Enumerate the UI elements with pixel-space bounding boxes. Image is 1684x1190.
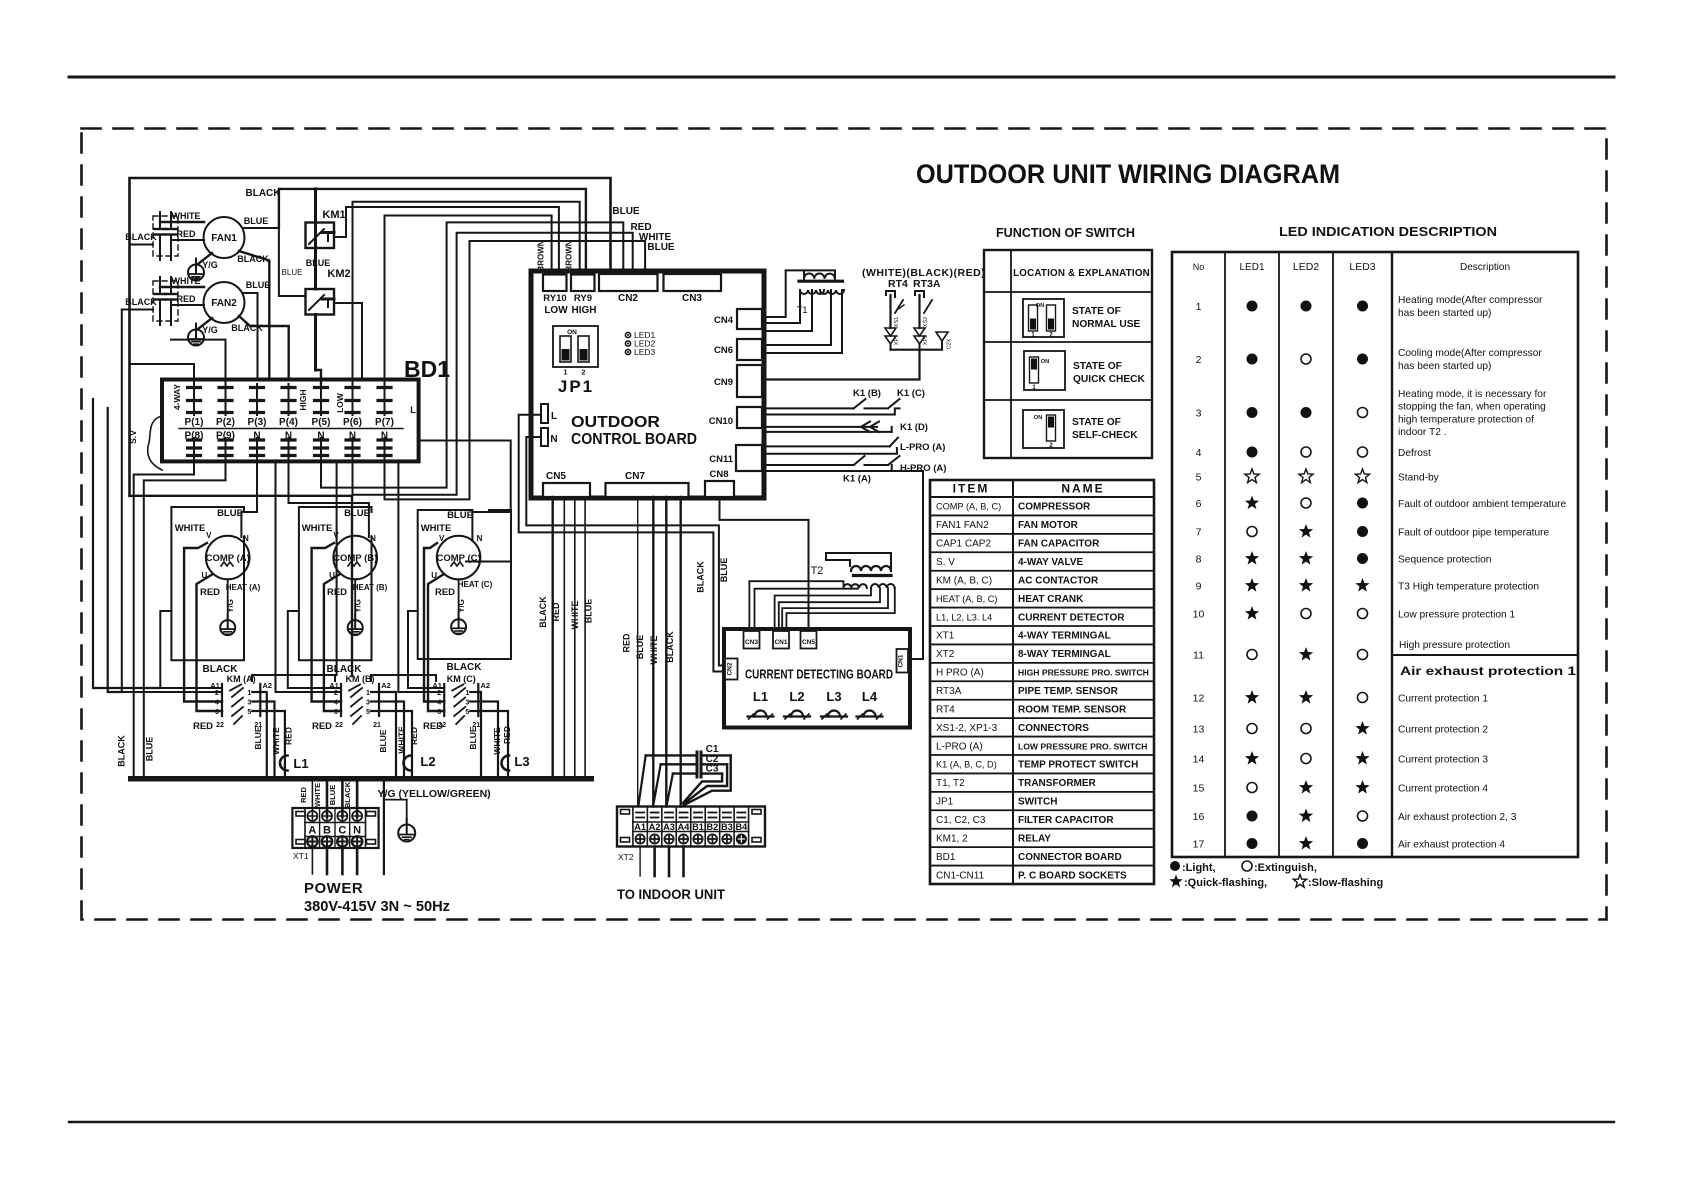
current transformers L1-L4 — [748, 689, 883, 719]
svg-text:RED: RED — [312, 721, 332, 732]
svg-text:BLUE: BLUE — [719, 558, 729, 583]
svg-text:3: 3 — [1196, 408, 1202, 420]
svg-text:RT3A: RT3A — [913, 278, 941, 290]
svg-text:6: 6 — [215, 709, 219, 716]
svg-text:FAN1: FAN1 — [211, 233, 237, 244]
svg-text:TEMP PROTECT SWITCH: TEMP PROTECT SWITCH — [1018, 760, 1138, 771]
svg-text:P(1): P(1) — [185, 417, 204, 428]
svg-text:4: 4 — [215, 700, 219, 707]
svg-text:BLUE: BLUE — [584, 599, 594, 624]
wire BD1 N to CN2 RED — [321, 222, 652, 488]
dip switch JP1 — [553, 326, 598, 396]
label BLACK above KM B — [327, 664, 363, 675]
svg-text:17: 17 — [1193, 839, 1205, 851]
svg-text:Low pressure protection 1: Low pressure protection 1 — [1398, 610, 1516, 621]
svg-text:L1: L1 — [753, 689, 768, 704]
svg-text:AC CONTACTOR: AC CONTACTOR — [1018, 575, 1099, 586]
svg-text:high temperature protection of: high temperature protection of — [1398, 414, 1534, 425]
svg-text:BLACK: BLACK — [665, 631, 675, 663]
svg-text:LOW: LOW — [544, 305, 568, 316]
svg-text:BLUE: BLUE — [282, 268, 303, 277]
svg-text:7: 7 — [1196, 527, 1202, 539]
svg-text:ON: ON — [567, 329, 577, 336]
terminal block XT1 — [292, 808, 378, 861]
svg-text:indoor T2 .: indoor T2 . — [1398, 427, 1447, 438]
svg-text:High pressure protection: High pressure protection — [1399, 640, 1510, 651]
svg-text:5: 5 — [465, 709, 469, 716]
svg-text:P(2): P(2) — [216, 417, 235, 428]
wires KM C down to bar and L3 — [468, 692, 512, 777]
svg-text:Air exhaust protection 1: Air exhaust protection 1 — [1400, 666, 1577, 678]
connector CN5 cdb — [801, 631, 817, 649]
svg-text:FUNCTION OF SWITCH: FUNCTION OF SWITCH — [996, 225, 1135, 240]
svg-text:FAN1 FAN2: FAN1 FAN2 — [936, 520, 989, 531]
svg-text:BLUE: BLUE — [253, 726, 263, 749]
wire BD1 P1 from outer edge — [130, 364, 195, 384]
svg-text:A4: A4 — [678, 822, 691, 832]
svg-text:HEAT (A, B, C): HEAT (A, B, C) — [936, 594, 997, 604]
label BROWN wires — [537, 240, 574, 271]
svg-text:Y/G: Y/G — [226, 599, 235, 613]
svg-text:5: 5 — [366, 709, 370, 716]
wires T1 primary — [764, 270, 835, 317]
connector CN7 — [606, 471, 689, 497]
svg-text:Current protection 2: Current protection 2 — [1398, 725, 1488, 736]
wire black A third — [160, 611, 222, 688]
svg-text:KM1: KM1 — [322, 209, 345, 221]
svg-text:HIGH: HIGH — [572, 305, 597, 316]
connector C2X — [936, 332, 953, 349]
svg-text:RY10: RY10 — [543, 293, 566, 304]
svg-text:Fault of outdoor pipe temperat: Fault of outdoor pipe temperature — [1398, 528, 1550, 539]
filter capacitor C1 — [639, 744, 731, 805]
svg-text:Stand-by: Stand-by — [1398, 473, 1440, 484]
svg-text:RELAY: RELAY — [1018, 833, 1051, 844]
svg-text:K1 (C): K1 (C) — [897, 388, 925, 399]
wire BLACK to fan1 — [125, 232, 157, 245]
svg-text:1: 1 — [465, 690, 469, 697]
svg-text:WHITE: WHITE — [302, 523, 333, 534]
svg-text:L1: L1 — [293, 756, 308, 771]
svg-text:JP1: JP1 — [936, 797, 954, 808]
wire BLACK fan2 to BD1 P4 — [231, 316, 288, 380]
wire BD1 aux drop 3 — [398, 461, 444, 692]
svg-text:10: 10 — [1193, 609, 1205, 621]
svg-text:T1, T2: T1, T2 — [936, 778, 965, 789]
current loop L1 — [280, 756, 309, 772]
svg-text:N: N — [253, 431, 260, 442]
svg-text:WHITE: WHITE — [172, 276, 201, 286]
svg-text:BLACK: BLACK — [117, 735, 127, 767]
transformer T1 — [796, 274, 844, 316]
capacitor CAP2 (fan2) — [153, 277, 178, 325]
svg-text:ROOM TEMP. SENSOR: ROOM TEMP. SENSOR — [1018, 704, 1127, 715]
svg-text:8-WAY TERMINGAL: 8-WAY TERMINGAL — [1018, 649, 1111, 660]
svg-text:LED INDICATION DESCRIPTION: LED INDICATION DESCRIPTION — [1279, 224, 1497, 239]
switch icon self check — [1023, 410, 1138, 449]
svg-text:BLACK: BLACK — [237, 254, 269, 264]
svg-text:NAME: NAME — [1061, 482, 1104, 496]
svg-text:CN4: CN4 — [714, 315, 734, 326]
svg-text:L4: L4 — [862, 689, 878, 704]
svg-text:C2X: C2X — [947, 338, 953, 349]
svg-text:JP1: JP1 — [558, 377, 594, 396]
wire C third — [408, 611, 444, 688]
svg-text:CN5: CN5 — [546, 471, 566, 482]
svg-text:Y/G: Y/G — [354, 599, 363, 613]
svg-text:K1 (A, B, C, D): K1 (A, B, C, D) — [936, 760, 997, 770]
svg-text:KM1, 2: KM1, 2 — [936, 833, 968, 844]
svg-text:LOW PRESSURE PRO. SWITCH: LOW PRESSURE PRO. SWITCH — [1018, 741, 1147, 751]
dashed drawing border — [82, 129, 1607, 920]
connector RY9 — [571, 275, 597, 317]
connector CN1 cdb right — [897, 649, 909, 673]
svg-text:Fault of outdoor ambient tempe: Fault of outdoor ambient temperature — [1398, 499, 1567, 510]
svg-text:6: 6 — [1196, 498, 1202, 510]
svg-text:HEAT (C): HEAT (C) — [458, 580, 493, 589]
sensor RT4 — [885, 291, 904, 345]
wires XT1 down — [312, 848, 357, 874]
wire L from BD1 to COMP C — [419, 441, 511, 541]
svg-text:BLUE: BLUE — [635, 635, 645, 660]
svg-text:KM2: KM2 — [327, 268, 350, 280]
wires CN7 bundle down — [622, 497, 681, 807]
svg-text:Description: Description — [1460, 262, 1510, 273]
svg-text:Y/G: Y/G — [457, 599, 466, 613]
svg-text:RT4: RT4 — [888, 278, 908, 290]
wire left trunk extension — [122, 310, 222, 693]
svg-text:CONNECTOR BOARD: CONNECTOR BOARD — [1018, 852, 1122, 863]
wires KM B down to bar and L2 — [378, 692, 419, 777]
svg-text:CONTROL BOARD: CONTROL BOARD — [571, 431, 697, 448]
svg-text:22: 22 — [335, 722, 343, 729]
svg-text:BLUE: BLUE — [217, 508, 243, 519]
svg-text:A1: A1 — [432, 681, 442, 690]
svg-text:T3 High temperature protection: T3 High temperature protection — [1398, 582, 1539, 593]
ground comp C — [451, 579, 466, 634]
svg-text:WHITE: WHITE — [492, 727, 502, 755]
wire BD1 aux drop 1 — [276, 461, 342, 692]
title — [916, 159, 1340, 189]
svg-text:XS1-2, XP1-3: XS1-2, XP1-3 — [936, 723, 998, 734]
svg-text:RED: RED — [193, 721, 213, 732]
switch L-PRO(A) — [764, 438, 945, 454]
svg-text:HIGH: HIGH — [298, 389, 308, 410]
svg-text:V: V — [206, 531, 212, 540]
svg-text:CN5: CN5 — [802, 639, 815, 646]
wires XT2 down — [640, 847, 683, 877]
svg-text::Extinguish,: :Extinguish, — [1254, 862, 1317, 874]
svg-text:HEAT CRANK: HEAT CRANK — [1018, 594, 1084, 605]
svg-text:N: N — [349, 431, 356, 442]
svg-text:5: 5 — [247, 709, 251, 716]
svg-text:BD1: BD1 — [404, 356, 450, 382]
svg-text:KM (C): KM (C) — [447, 674, 476, 684]
connector CN3 — [664, 274, 722, 304]
svg-text:BLUE: BLUE — [344, 508, 370, 519]
svg-text:P(7): P(7) — [375, 417, 394, 428]
svg-text:8: 8 — [1196, 554, 1202, 566]
ground comp B — [348, 579, 363, 635]
svg-text:Air exhaust protection 2, 3: Air exhaust protection 2, 3 — [1398, 812, 1517, 823]
compressor COMP(C) — [421, 510, 511, 598]
svg-text:HEAT (B): HEAT (B) — [353, 583, 388, 592]
svg-text:BLACK: BLACK — [538, 596, 548, 628]
wire red A — [197, 574, 223, 711]
wire white B — [312, 543, 341, 702]
svg-text:N: N — [285, 431, 292, 442]
svg-text:L-PRO (A): L-PRO (A) — [900, 442, 945, 453]
compressor COMP(B) — [302, 508, 388, 598]
switch icon quick check — [1024, 351, 1146, 391]
svg-text:A1: A1 — [329, 681, 339, 690]
wire BLACK fan1 down to BD1 — [237, 251, 269, 380]
svg-text:L: L — [410, 405, 416, 415]
svg-text:BLUE: BLUE — [468, 726, 478, 749]
svg-text:L1, L2, L3. L4: L1, L2, L3. L4 — [936, 612, 992, 622]
svg-text:C3: C3 — [706, 764, 719, 775]
svg-text:P(8): P(8) — [185, 431, 204, 442]
connector CN2 — [599, 274, 658, 304]
svg-text:4-WAY VALVE: 4-WAY VALVE — [1018, 557, 1084, 568]
svg-text::Quick-flashing,: :Quick-flashing, — [1184, 877, 1267, 889]
svg-text:OUTDOOR UNIT WIRING DIAGRAM: OUTDOOR UNIT WIRING DIAGRAM — [916, 159, 1340, 189]
svg-text:CURRENT DETECTING BOARD: CURRENT DETECTING BOARD — [745, 668, 893, 682]
connector CN3 cdb — [744, 631, 760, 649]
svg-text:22: 22 — [216, 722, 224, 729]
svg-text:BLUE: BLUE — [647, 242, 675, 253]
svg-text:A1: A1 — [634, 822, 646, 832]
connector N — [541, 428, 558, 446]
svg-text:BLACK: BLACK — [203, 664, 239, 675]
switch icon normal use — [1023, 299, 1141, 339]
svg-text:N: N — [477, 534, 483, 543]
sensors RT4 RT3A labels — [862, 267, 985, 290]
svg-text:L-PRO (A): L-PRO (A) — [936, 741, 983, 752]
svg-text:HIGH PRESSURE PRO. SWITCH: HIGH PRESSURE PRO. SWITCH — [1018, 668, 1149, 678]
svg-text:XP1: XP1 — [894, 335, 900, 345]
svg-text:L2: L2 — [420, 754, 435, 769]
svg-text:S.V: S.V — [128, 430, 138, 444]
svg-text:P(4): P(4) — [279, 417, 298, 428]
svg-text:WHITE: WHITE — [649, 636, 659, 665]
svg-text:380V-415V 3N ~ 50Hz: 380V-415V 3N ~ 50Hz — [304, 898, 450, 915]
svg-text:N: N — [550, 434, 557, 445]
compressor box A — [171, 507, 244, 660]
wire BLACK KM1 stem to RY9 — [246, 188, 586, 274]
switch K1(D) — [764, 422, 928, 434]
svg-text:WHITE: WHITE — [421, 523, 452, 534]
svg-text:BLACK: BLACK — [125, 232, 157, 242]
svg-text:XT2: XT2 — [936, 649, 955, 660]
wire N to current board CN2 — [526, 437, 725, 666]
wire white C — [424, 543, 444, 702]
svg-text:BLUE: BLUE — [378, 729, 388, 752]
label BLACK above KM A — [203, 664, 239, 675]
svg-text:BLUE: BLUE — [306, 258, 331, 268]
svg-text:PIPE TEMP. SENSOR: PIPE TEMP. SENSOR — [1018, 686, 1119, 697]
svg-text:RED: RED — [502, 726, 512, 744]
wire white A — [184, 543, 222, 702]
svg-text:Defrost: Defrost — [1398, 448, 1431, 459]
svg-text:B: B — [323, 825, 331, 837]
label BLUE trunk — [145, 737, 155, 762]
svg-text:B3: B3 — [721, 822, 733, 832]
svg-text:A2: A2 — [381, 681, 391, 690]
svg-text:BLUE: BLUE — [612, 206, 640, 217]
wire to current board right CN1 — [892, 471, 923, 659]
svg-text:1: 1 — [366, 690, 370, 697]
svg-text:9: 9 — [1196, 581, 1202, 593]
outdoor control board — [531, 271, 764, 498]
connector CN4 — [714, 309, 762, 329]
connector RY10 — [543, 275, 568, 317]
current loop L3 — [502, 754, 530, 771]
svg-text:RED: RED — [176, 294, 196, 304]
svg-text:WHITE: WHITE — [175, 523, 206, 534]
svg-text:SELF-CHECK: SELF-CHECK — [1072, 430, 1138, 441]
wire sensors to CN9 — [764, 341, 942, 380]
wires KM A down to bar and L1 — [253, 692, 294, 777]
connector CN5 — [543, 471, 590, 497]
svg-text:A2: A2 — [481, 681, 491, 690]
connector L — [541, 404, 557, 423]
svg-text:FAN2: FAN2 — [211, 298, 237, 309]
svg-text:LED2: LED2 — [1293, 261, 1319, 273]
svg-text:OUTDOOR: OUTDOOR — [571, 414, 660, 431]
svg-text:WHITE: WHITE — [271, 727, 281, 755]
svg-text:C1, C2, C3: C1, C2, C3 — [936, 815, 986, 826]
svg-text:12: 12 — [1193, 693, 1205, 705]
svg-text:Y/G: Y/G — [202, 260, 218, 270]
svg-text:21: 21 — [373, 722, 381, 729]
label BLACK trunk — [117, 735, 127, 767]
table function of switch — [984, 225, 1152, 458]
svg-text:RED: RED — [200, 587, 220, 598]
wire black B third — [288, 611, 341, 688]
svg-text:RED: RED — [176, 229, 196, 239]
svg-text:WHITE: WHITE — [172, 211, 201, 221]
svg-text:3: 3 — [247, 700, 251, 707]
svg-text:CN3: CN3 — [682, 293, 702, 304]
S.V wire bracket — [128, 416, 162, 470]
svg-text:A2: A2 — [263, 681, 273, 690]
wire to RY10 left — [385, 216, 552, 385]
ground bus bar — [128, 776, 594, 782]
ground comp A — [220, 579, 235, 635]
led table cells — [1193, 295, 1578, 850]
svg-text:HEAT (A): HEAT (A) — [226, 583, 261, 592]
svg-text:POWER: POWER — [304, 880, 363, 897]
svg-text:No: No — [1193, 262, 1205, 272]
svg-text:RED: RED — [435, 587, 455, 598]
svg-text:Current protection 4: Current protection 4 — [1398, 784, 1488, 795]
svg-text:H PRO (A): H PRO (A) — [936, 668, 984, 679]
svg-text:has been started up): has been started up) — [1398, 308, 1491, 319]
svg-text:CURRENT DETECTOR: CURRENT DETECTOR — [1018, 612, 1125, 623]
svg-text:A: A — [308, 825, 316, 837]
wire BD1 N2 to COMP B blue — [289, 457, 369, 537]
svg-text:CN8: CN8 — [709, 469, 728, 480]
wire CN8 to current board CN5 — [720, 497, 809, 629]
svg-text:TO INDOOR UNIT: TO INDOOR UNIT — [617, 886, 725, 902]
svg-text:2: 2 — [1196, 354, 1202, 366]
wire BD1 N to CN2 BLUE — [385, 241, 675, 499]
svg-text:LOW: LOW — [335, 392, 345, 413]
svg-text:15: 15 — [1193, 783, 1205, 795]
svg-text:XS2: XS2 — [923, 317, 929, 327]
transformer T2 — [811, 565, 895, 588]
connector CN10 — [709, 407, 762, 428]
svg-text:P(3): P(3) — [248, 417, 267, 428]
wire WHITE fan1 — [160, 211, 204, 222]
relay KM2 — [282, 258, 351, 370]
connector CN6 — [714, 339, 762, 360]
svg-text:N: N — [317, 431, 324, 442]
labels BLACK BLUE vertical — [696, 558, 730, 593]
svg-text:SWITCH: SWITCH — [1018, 797, 1057, 808]
svg-text:CN1: CN1 — [897, 654, 904, 667]
svg-text:ITEM: ITEM — [953, 482, 990, 496]
svg-text:T1: T1 — [796, 305, 807, 316]
svg-text:STATE OF: STATE OF — [1073, 361, 1122, 372]
connector CN11 — [709, 445, 762, 471]
contactor KM(B) — [312, 674, 391, 732]
svg-text:CN10: CN10 — [709, 416, 733, 427]
wire KM1 contact up to RY10 — [334, 207, 559, 274]
svg-text:FAN CAPACITOR: FAN CAPACITOR — [1018, 539, 1100, 550]
svg-text:Cooling mode(After compressor: Cooling mode(After compressor — [1398, 348, 1542, 359]
sensor RT3A — [914, 291, 932, 345]
svg-text:6: 6 — [437, 709, 441, 716]
svg-text:has been started up): has been started up) — [1398, 361, 1491, 372]
label BLACK above KM C — [447, 662, 483, 673]
svg-text:BLACK: BLACK — [696, 561, 706, 593]
svg-text:3: 3 — [366, 700, 370, 707]
current detecting board — [724, 629, 910, 728]
svg-text:Current protection 1: Current protection 1 — [1398, 694, 1488, 705]
svg-text:CN3: CN3 — [745, 639, 758, 646]
wire RED fan2 — [171, 294, 204, 305]
wires bar to XT1 — [299, 781, 357, 817]
filter capacitor C3 — [667, 764, 722, 806]
svg-text:P(5): P(5) — [312, 417, 331, 428]
wire black bus between contactors — [252, 675, 436, 681]
svg-text:A3: A3 — [663, 822, 675, 832]
svg-text:N: N — [243, 534, 249, 543]
svg-text:stopping the fan, when operat: stopping the fan, when operating — [1398, 402, 1546, 413]
compressor COMP(A) — [175, 508, 261, 598]
svg-text:XT1: XT1 — [936, 631, 955, 642]
wire RED fan1 — [171, 229, 204, 240]
wire BD1 N1 to COMP A blue — [241, 457, 257, 537]
svg-text:Air exhaust protection 4: Air exhaust protection 4 — [1398, 840, 1505, 851]
wire KM2 bottom to BD1 P5 — [316, 370, 322, 384]
svg-text:Heating mode(After compressor: Heating mode(After compressor — [1398, 295, 1543, 306]
svg-text:1: 1 — [564, 370, 568, 377]
svg-text:CN6: CN6 — [714, 345, 733, 356]
svg-text:NORMAL USE: NORMAL USE — [1072, 319, 1141, 330]
wire far-left feed 1 — [93, 399, 160, 688]
svg-text:RED: RED — [423, 721, 443, 732]
svg-text:RED: RED — [551, 602, 561, 622]
svg-text:B4: B4 — [735, 822, 748, 832]
relay KM1 — [306, 189, 346, 289]
wire KM2 contact to BD1 — [334, 303, 362, 380]
label BLUE at CN2 main — [612, 206, 640, 217]
svg-text:L2: L2 — [789, 689, 804, 704]
svg-text:CN2: CN2 — [726, 662, 733, 675]
